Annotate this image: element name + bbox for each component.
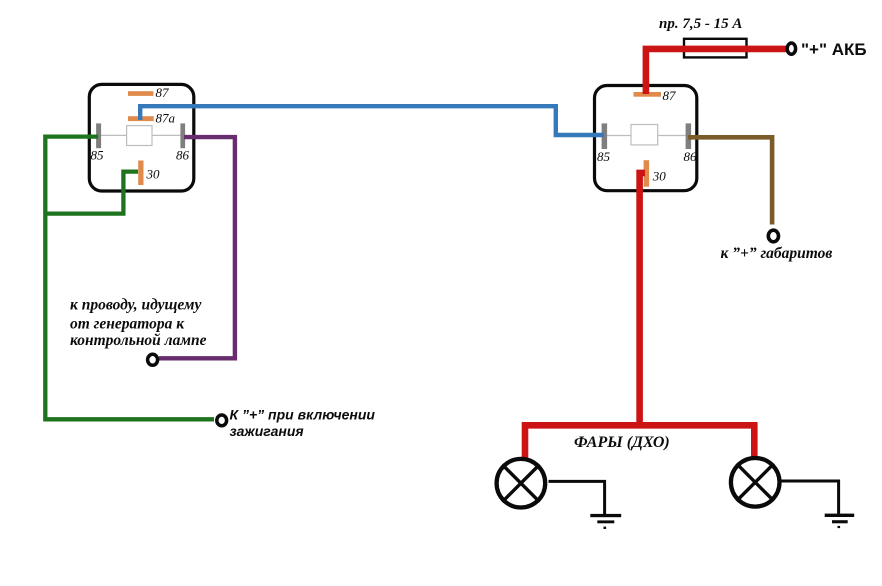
wire red from fuse to relay K2 pin 87 xyxy=(646,49,787,94)
relay K1 pin 85 contact xyxy=(96,123,101,148)
terminal ring "+" АКБ xyxy=(787,43,795,54)
relay K2 pin 87 contact xyxy=(634,92,662,97)
svg-text:87: 87 xyxy=(663,88,677,103)
svg-text:85: 85 xyxy=(597,149,611,164)
relay K1 pin 30 contact xyxy=(138,161,143,186)
terminal ring ignition xyxy=(217,415,227,426)
relay K2 body xyxy=(595,86,697,191)
wire red tee to lamps xyxy=(525,425,754,459)
svg-text:86: 86 xyxy=(684,149,698,164)
svg-text:"+" АКБ: "+" АКБ xyxy=(801,40,867,59)
lamp HL1 ground bar 2 xyxy=(597,520,614,523)
relay K1 pin 87a contact xyxy=(128,116,154,121)
lamp HL2 ground bar 1 xyxy=(825,514,855,517)
svg-text:87a: 87a xyxy=(156,111,176,126)
svg-text:30: 30 xyxy=(146,167,161,182)
svg-text:87: 87 xyxy=(156,85,170,100)
relay K2 coil xyxy=(631,125,658,145)
svg-text:к проводу, идущему: к проводу, идущему xyxy=(70,297,201,314)
lamp HL1 cross xyxy=(502,465,539,502)
relay K1 coil lead wires xyxy=(100,134,182,136)
lamp HL2 ground wire xyxy=(782,481,839,514)
svg-text:контрольной лампе: контрольной лампе xyxy=(70,332,207,349)
fuse F1 пр. 7,5 - 15 А body xyxy=(684,39,747,58)
terminal ring control lamp wire xyxy=(148,354,158,365)
lamp HL2 cross xyxy=(737,464,774,501)
lamp HL2 circle xyxy=(731,458,780,507)
wire brown from relay K2 pin 86 to side-lights terminal xyxy=(688,137,772,224)
svg-text:к ”+” габаритов: к ”+” габаритов xyxy=(721,245,833,262)
svg-text:ФАРЫ (ДХО): ФАРЫ (ДХО) xyxy=(574,434,670,451)
relay K2 pin 30 contact xyxy=(644,160,650,187)
relay K1 coil xyxy=(127,126,152,146)
svg-text:К ”+” при включении: К ”+” при включении xyxy=(230,406,376,422)
svg-text:85: 85 xyxy=(91,148,105,163)
lamp HL2 ground bar 2 xyxy=(832,520,848,523)
svg-text:30: 30 xyxy=(652,168,667,183)
svg-text:зажигания: зажигания xyxy=(230,423,304,439)
wire purple from relay K1 pin 86 to control-lamp terminal xyxy=(159,137,235,358)
relay K1 pin 87 contact xyxy=(128,91,153,96)
wire blue from relay K1 pin 87a to relay K2 pin 85 xyxy=(140,106,604,135)
lamp HL2 ground dot xyxy=(838,526,841,528)
wire red from relay K2 pin 30 down to lamp tee xyxy=(640,173,645,425)
lamp HL1 circle xyxy=(497,459,546,508)
lamp HL1 ground bar 1 xyxy=(590,514,621,517)
relay K2 pin 86 contact xyxy=(686,123,692,149)
svg-text:86: 86 xyxy=(176,148,190,163)
relay K1 pin 86 contact xyxy=(180,123,185,148)
svg-text:от генератора к: от генератора к xyxy=(70,315,185,332)
relay K2 coil lead wires xyxy=(606,135,686,137)
terminal ring к габаритов xyxy=(768,230,778,242)
lamp HL1 ground wire xyxy=(549,481,605,514)
relay K1 body xyxy=(89,84,194,191)
svg-text:пр. 7,5 - 15 А: пр. 7,5 - 15 А xyxy=(659,16,742,32)
wire green from relay K1 pin 85 to ignition terminal xyxy=(45,137,214,420)
relay K2 pin 85 contact xyxy=(602,123,608,149)
wire green branch from relay K1 pin 30 xyxy=(47,172,138,214)
lamp HL1 ground dot xyxy=(604,527,607,529)
